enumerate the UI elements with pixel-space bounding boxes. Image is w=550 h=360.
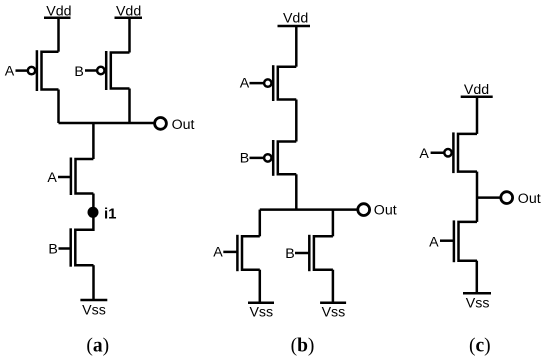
svg-text:A: A	[240, 76, 250, 92]
svg-text:B: B	[74, 64, 83, 80]
svg-text:Out: Out	[518, 191, 541, 207]
svg-text:Vdd: Vdd	[464, 82, 489, 98]
svg-text:A: A	[429, 234, 439, 250]
svg-text:Vdd: Vdd	[46, 4, 71, 20]
svg-text:(c): (c)	[469, 336, 491, 357]
svg-text:(b): (b)	[291, 336, 315, 357]
svg-text:Vss: Vss	[249, 304, 273, 320]
svg-text:Vdd: Vdd	[116, 4, 141, 20]
svg-text:Vdd: Vdd	[283, 11, 308, 27]
svg-text:A: A	[5, 64, 15, 80]
svg-text:i1: i1	[104, 205, 117, 222]
svg-text:B: B	[48, 242, 57, 258]
svg-text:Vss: Vss	[466, 295, 490, 311]
svg-text:B: B	[240, 151, 249, 167]
svg-text:Vss: Vss	[322, 304, 346, 320]
svg-text:Out: Out	[172, 117, 195, 133]
svg-text:(a): (a)	[86, 335, 109, 356]
svg-text:A: A	[419, 146, 429, 162]
svg-text:A: A	[47, 170, 57, 186]
svg-text:Out: Out	[374, 203, 397, 219]
svg-text:A: A	[213, 245, 223, 261]
svg-text:B: B	[285, 246, 294, 262]
svg-text:Vss: Vss	[82, 303, 106, 319]
